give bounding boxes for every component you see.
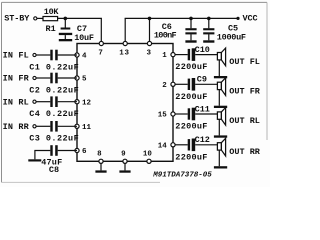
wire	[37, 17, 44, 19]
svg-text:C3 0.22uF: C3 0.22uF	[29, 134, 79, 144]
svg-text:M91TDA7378-05: M91TDA7378-05	[152, 171, 212, 179]
pin 6	[75, 148, 87, 156]
C10 ref	[195, 45, 210, 55]
speaker OUT RR	[217, 138, 225, 156]
wire	[175, 54, 188, 56]
pin 12	[75, 99, 92, 107]
ground	[214, 60, 227, 79]
node IN FR	[3, 74, 37, 84]
svg-text:ST-BY: ST-BY	[4, 14, 30, 24]
svg-text:OUT RL: OUT RL	[229, 116, 260, 126]
speaker OUT FL	[217, 48, 225, 66]
speaker OUT FR	[217, 78, 225, 96]
capacitor C1	[50, 50, 57, 61]
capacitor C10	[188, 48, 196, 61]
wire	[195, 113, 218, 115]
C12 ref	[195, 135, 210, 145]
ground	[185, 40, 196, 42]
junction	[64, 17, 68, 21]
svg-text:R1: R1	[45, 24, 55, 34]
ground	[28, 159, 41, 161]
R1 value 10K	[44, 7, 60, 17]
capacitor C7	[59, 18, 72, 39]
svg-text:IN RL: IN RL	[3, 97, 29, 107]
capacitor C6	[185, 18, 196, 40]
node OUT RL	[229, 116, 260, 126]
svg-text:4: 4	[82, 53, 87, 61]
node OUT FR	[229, 87, 261, 97]
ground	[214, 119, 227, 138]
C7 ref	[77, 24, 87, 34]
ground	[95, 163, 106, 172]
capacitor C9	[188, 78, 196, 91]
C6 value 100nF	[154, 30, 177, 40]
wire	[57, 18, 102, 43]
svg-text:15: 15	[158, 112, 168, 120]
svg-text:2200uF: 2200uF	[175, 122, 207, 132]
pin 2	[162, 82, 175, 90]
ground	[203, 40, 214, 42]
svg-text:100nF: 100nF	[154, 30, 177, 40]
svg-text:7: 7	[98, 50, 103, 58]
svg-text:10K: 10K	[44, 7, 60, 17]
pin 3	[147, 41, 152, 57]
wire	[34, 151, 50, 160]
wire	[58, 101, 77, 103]
C10 value 2200uF	[175, 62, 207, 72]
node IN FL	[3, 51, 37, 61]
pin 11	[75, 124, 92, 132]
svg-text:VCC: VCC	[243, 14, 258, 24]
svg-text:1: 1	[162, 52, 167, 60]
svg-text:13: 13	[119, 50, 129, 58]
capacitor C3	[50, 121, 57, 132]
node IN RL	[3, 97, 37, 107]
wire	[175, 83, 188, 85]
svg-text:6: 6	[82, 148, 87, 156]
node OUT FL	[229, 57, 260, 67]
node OUT RR	[229, 147, 261, 157]
svg-text:C9: C9	[197, 75, 207, 85]
wire	[58, 150, 77, 152]
junction	[189, 17, 193, 21]
node ST-BY	[4, 14, 37, 24]
svg-text:9: 9	[121, 151, 126, 159]
svg-text:C10: C10	[195, 45, 210, 55]
junction	[207, 17, 211, 21]
pin 4	[75, 53, 87, 61]
C6 ref	[162, 22, 172, 32]
svg-text:2: 2	[162, 82, 167, 90]
svg-text:2200uF: 2200uF	[175, 152, 207, 162]
C9 value 2200uF	[175, 92, 207, 102]
svg-text:C1 0.22uF: C1 0.22uF	[29, 62, 79, 72]
text M91TDA7378-05	[152, 171, 212, 179]
C4 value 0.22uF	[29, 109, 79, 119]
svg-text:10: 10	[143, 151, 153, 159]
wire	[125, 18, 238, 43]
node VCC	[236, 14, 257, 24]
ground	[59, 39, 72, 41]
wire	[175, 144, 188, 146]
svg-text:IN FL: IN FL	[3, 51, 29, 61]
wire	[58, 54, 77, 56]
C8 value 47uF	[41, 157, 62, 167]
C5 ref	[228, 23, 238, 33]
C9 ref	[197, 75, 207, 85]
C8 ref	[49, 165, 59, 175]
C12 value 2200uF	[175, 152, 207, 162]
svg-text:1000uF: 1000uF	[217, 32, 246, 42]
junction	[148, 17, 152, 21]
svg-text:3: 3	[147, 50, 152, 58]
wire	[36, 77, 50, 79]
wire	[36, 101, 50, 103]
pin 14	[158, 142, 175, 150]
svg-text:14: 14	[158, 142, 168, 150]
wire	[175, 113, 188, 115]
wire	[195, 144, 218, 146]
wire	[195, 54, 218, 56]
capacitor C8	[50, 145, 57, 156]
svg-text:11: 11	[82, 124, 92, 132]
pin 8	[97, 151, 103, 164]
svg-text:C8: C8	[49, 165, 59, 175]
pin 15	[158, 112, 175, 120]
capacitor C5	[203, 18, 214, 40]
svg-text:IN RR: IN RR	[3, 122, 30, 132]
capacitor C2	[50, 73, 57, 84]
svg-text:OUT RR: OUT RR	[229, 147, 261, 157]
C11 ref	[195, 104, 210, 114]
ground	[214, 89, 227, 108]
C3 value 0.22uF	[29, 134, 79, 144]
wire	[58, 77, 77, 79]
node IN RR	[3, 122, 37, 132]
C1 value 0.22uF	[29, 62, 79, 72]
wire	[58, 125, 77, 127]
pin 9	[121, 151, 127, 164]
svg-text:C11: C11	[195, 104, 210, 114]
svg-text:OUT FL: OUT FL	[229, 57, 260, 67]
svg-text:C12: C12	[195, 135, 210, 145]
capacitor C11	[188, 108, 196, 121]
capacitor C12	[188, 139, 196, 152]
wire	[149, 18, 151, 43]
pin 10	[143, 151, 153, 164]
C2 value 0.22uF	[29, 85, 79, 95]
C7 value 10uF	[74, 33, 94, 43]
svg-text:2200uF: 2200uF	[175, 62, 207, 72]
ground	[119, 163, 130, 172]
IC U1 M91TDA7378-05	[77, 44, 173, 162]
ground	[214, 150, 227, 169]
svg-text:IN FR: IN FR	[3, 74, 30, 84]
wire	[36, 54, 50, 56]
svg-text:12: 12	[82, 99, 92, 107]
pin 5	[75, 76, 87, 84]
capacitor C4	[50, 96, 57, 107]
svg-text:8: 8	[97, 151, 102, 159]
svg-text:5: 5	[82, 76, 87, 84]
svg-text:10uF: 10uF	[74, 33, 94, 43]
wire	[36, 125, 50, 127]
svg-text:OUT FR: OUT FR	[229, 87, 261, 97]
R1 ref	[45, 24, 55, 34]
pin 13	[119, 41, 129, 57]
svg-text:C2 0.22uF: C2 0.22uF	[29, 85, 79, 95]
svg-text:C4 0.22uF: C4 0.22uF	[29, 109, 79, 119]
wire	[195, 83, 218, 85]
C5 value 1000uF	[217, 32, 246, 42]
speaker OUT RL	[217, 108, 225, 126]
resistor R1	[43, 17, 58, 21]
pin 1	[162, 52, 175, 60]
C11 value 2200uF	[175, 122, 207, 132]
svg-text:2200uF: 2200uF	[175, 92, 207, 102]
pin 7	[98, 41, 103, 57]
